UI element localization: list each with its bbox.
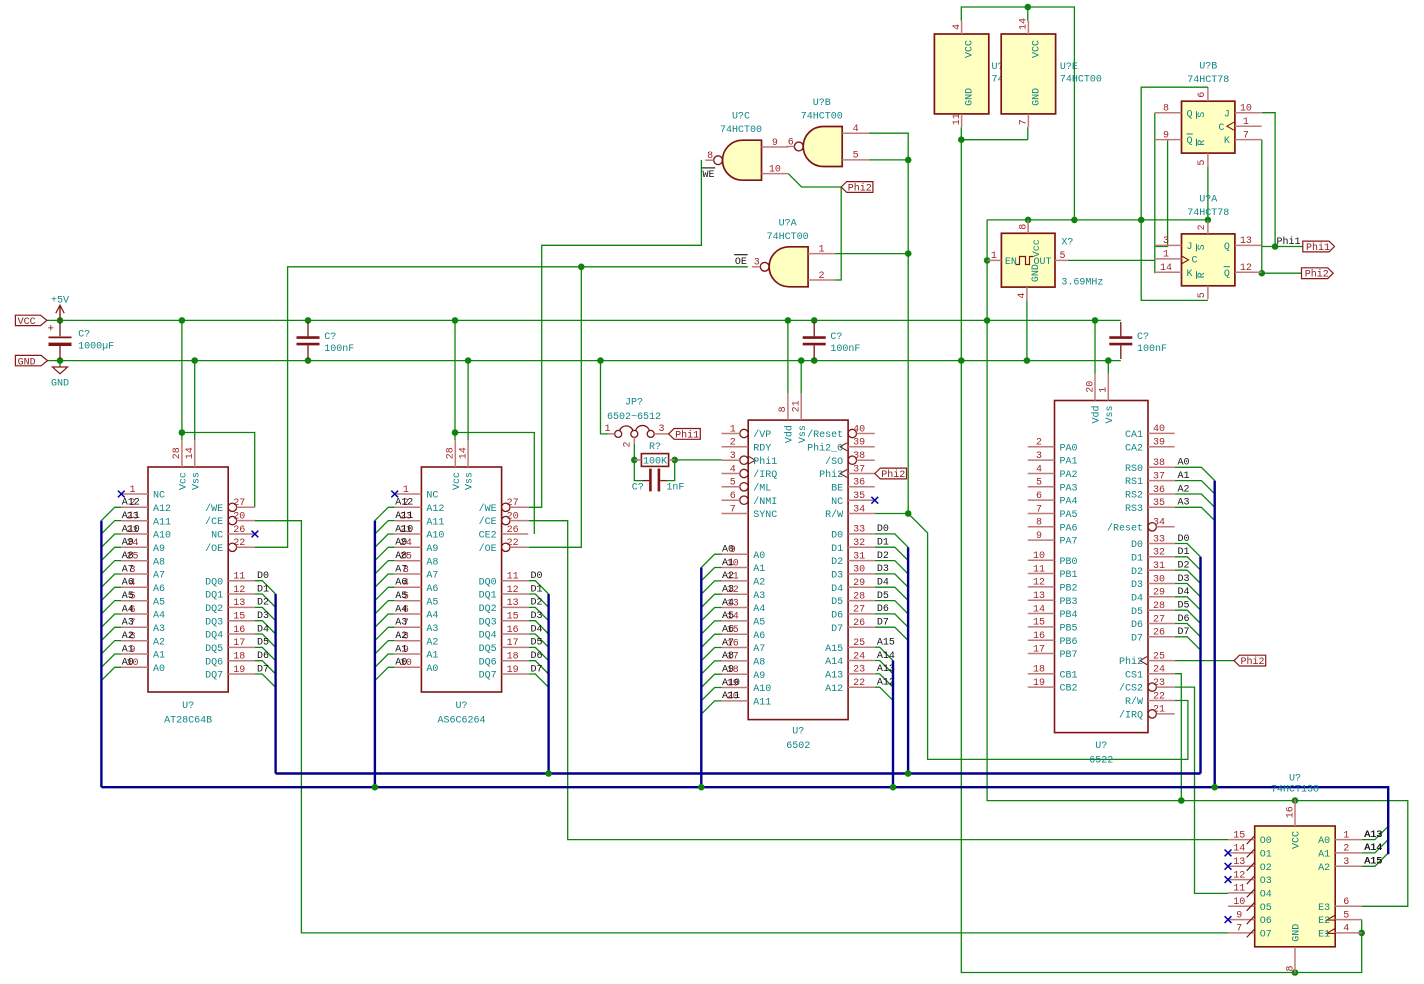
svg-text:1: 1	[129, 485, 135, 496]
svg-text:/ML: /ML	[753, 482, 771, 494]
svg-text:D2: D2	[877, 551, 889, 562]
svg-text:Vss: Vss	[191, 472, 202, 490]
svg-text:PA2: PA2	[1060, 470, 1078, 481]
svg-text:74HCT00: 74HCT00	[801, 112, 843, 123]
svg-text:16: 16	[507, 625, 519, 636]
svg-text:1: 1	[403, 485, 409, 496]
svg-text:DQ4: DQ4	[479, 631, 497, 642]
svg-text:A11: A11	[395, 511, 413, 522]
svg-text:35: 35	[853, 491, 865, 502]
svg-text:4: 4	[1017, 293, 1028, 299]
svg-text:/IRQ: /IRQ	[1119, 710, 1143, 722]
svg-text:C?: C?	[78, 329, 90, 340]
svg-text:16: 16	[1033, 631, 1045, 642]
svg-text:Q: Q	[1187, 136, 1193, 147]
svg-text:A3: A3	[122, 618, 134, 629]
svg-text:RS2: RS2	[1125, 491, 1143, 502]
svg-text:28: 28	[446, 447, 457, 459]
svg-text:A2: A2	[1178, 484, 1190, 495]
svg-text:D3: D3	[1178, 574, 1190, 585]
svg-text:S: S	[1197, 112, 1208, 118]
svg-text:D0: D0	[257, 571, 269, 582]
svg-text:A10: A10	[153, 531, 171, 542]
svg-text:A7: A7	[122, 564, 134, 575]
svg-text:RS1: RS1	[1125, 477, 1143, 488]
svg-text:A3: A3	[153, 624, 165, 635]
svg-text:17: 17	[507, 638, 519, 649]
svg-text:4: 4	[1343, 924, 1349, 935]
svg-text:A4: A4	[722, 598, 734, 609]
svg-text:D6: D6	[1178, 614, 1190, 625]
svg-text:Vcc: Vcc	[452, 472, 463, 490]
svg-text:D3: D3	[1131, 580, 1143, 591]
svg-text:74HCT00: 74HCT00	[720, 125, 762, 136]
svg-text:Vss: Vss	[465, 472, 476, 490]
svg-text:/CS2: /CS2	[1119, 683, 1143, 695]
svg-text:A3: A3	[426, 624, 438, 635]
svg-text:A7: A7	[753, 644, 765, 655]
svg-text:23: 23	[1153, 678, 1165, 689]
svg-text:O4: O4	[1260, 890, 1272, 901]
svg-text:A0: A0	[1178, 458, 1190, 469]
svg-text:DQ4: DQ4	[205, 631, 223, 642]
svg-text:1000µF: 1000µF	[78, 342, 114, 353]
svg-text:10: 10	[1033, 551, 1045, 562]
svg-text:15: 15	[1233, 830, 1245, 841]
svg-text:74HCT00: 74HCT00	[767, 232, 809, 243]
svg-text:D5: D5	[531, 638, 543, 649]
svg-text:/Reset: /Reset	[807, 429, 843, 441]
svg-text:E1: E1	[1318, 930, 1330, 941]
svg-text:A1: A1	[753, 564, 765, 575]
svg-text:A5: A5	[722, 611, 734, 622]
svg-text:12: 12	[507, 585, 519, 596]
svg-text:15: 15	[233, 612, 245, 623]
svg-text:Vss: Vss	[1105, 405, 1116, 423]
svg-text:6: 6	[1036, 491, 1042, 502]
svg-text:RS3: RS3	[1125, 504, 1143, 515]
svg-text:D5: D5	[1131, 607, 1143, 618]
svg-text:A3: A3	[395, 618, 407, 629]
svg-text:Vcc: Vcc	[1032, 239, 1043, 257]
svg-text:Vdd: Vdd	[784, 425, 796, 443]
svg-text:31: 31	[853, 551, 865, 562]
svg-text:8: 8	[1285, 965, 1296, 971]
svg-text:D5: D5	[257, 638, 269, 649]
svg-text:U?B: U?B	[813, 98, 831, 109]
svg-text:A10: A10	[753, 684, 771, 695]
svg-text:26: 26	[1153, 628, 1165, 639]
svg-text:D6: D6	[877, 604, 889, 615]
svg-text:A2: A2	[426, 637, 438, 648]
svg-text:40: 40	[1153, 424, 1165, 435]
svg-text:18: 18	[1033, 665, 1045, 676]
svg-text:RDY: RDY	[753, 443, 771, 454]
svg-text:PB3: PB3	[1060, 597, 1078, 608]
svg-text:A14: A14	[1364, 843, 1382, 854]
svg-text:30: 30	[853, 565, 865, 576]
svg-text:22: 22	[507, 538, 519, 549]
svg-text:A9: A9	[426, 544, 438, 555]
svg-text:3: 3	[1343, 857, 1349, 868]
svg-text:20: 20	[233, 511, 245, 522]
svg-text:O7: O7	[1260, 930, 1272, 941]
svg-text:/SO: /SO	[825, 456, 843, 468]
svg-text:38: 38	[853, 451, 865, 462]
svg-text:6502: 6502	[786, 741, 810, 752]
svg-text:PA4: PA4	[1060, 497, 1078, 508]
svg-text:DQ2: DQ2	[479, 604, 497, 615]
svg-text:9: 9	[1236, 910, 1242, 921]
svg-text:A11: A11	[153, 517, 171, 528]
svg-text:Q: Q	[1187, 109, 1193, 120]
svg-text:PA0: PA0	[1060, 443, 1078, 454]
svg-text:Phi2: Phi2	[1305, 269, 1329, 281]
svg-text:6: 6	[788, 137, 794, 148]
svg-text:1: 1	[818, 244, 824, 255]
svg-text:/Reset: /Reset	[1107, 522, 1143, 534]
svg-text:OE: OE	[735, 257, 747, 268]
svg-text:40: 40	[853, 424, 865, 435]
svg-text:WE: WE	[703, 170, 715, 181]
svg-text:U?C: U?C	[732, 112, 750, 123]
svg-text:A2: A2	[722, 571, 734, 582]
svg-text:GND: GND	[1031, 264, 1042, 282]
svg-text:PB5: PB5	[1060, 624, 1078, 635]
svg-text:21: 21	[792, 400, 803, 412]
svg-text:6522: 6522	[1089, 756, 1113, 767]
svg-text:37: 37	[1153, 471, 1165, 482]
svg-text:C?: C?	[1137, 332, 1149, 343]
svg-text:7: 7	[1036, 504, 1042, 515]
svg-text:Q: Q	[1224, 242, 1230, 253]
svg-text:/NMI: /NMI	[753, 496, 777, 508]
svg-text:A12: A12	[825, 684, 843, 695]
svg-text:3: 3	[730, 451, 736, 462]
svg-text:A9: A9	[753, 671, 765, 682]
svg-text:CB2: CB2	[1060, 684, 1078, 695]
svg-text:AS6C6264: AS6C6264	[437, 716, 485, 727]
svg-text:A13: A13	[825, 671, 843, 682]
svg-text:U?E: U?E	[1060, 62, 1078, 73]
svg-text:1: 1	[604, 424, 610, 435]
svg-text:A3: A3	[722, 585, 734, 596]
svg-text:Phi1: Phi1	[1277, 236, 1301, 248]
svg-text:DQ2: DQ2	[205, 604, 223, 615]
svg-text:U?: U?	[182, 701, 194, 712]
svg-text:D2: D2	[1131, 567, 1143, 578]
svg-text:O2: O2	[1260, 863, 1272, 874]
svg-text:5: 5	[1343, 910, 1349, 921]
svg-text:D3: D3	[531, 611, 543, 622]
svg-text:A12: A12	[395, 498, 413, 509]
svg-text:D6: D6	[257, 651, 269, 662]
svg-text:8: 8	[778, 406, 789, 412]
svg-text:A3: A3	[753, 591, 765, 602]
svg-text:27: 27	[233, 498, 245, 509]
svg-text:D6: D6	[1131, 620, 1143, 631]
svg-text:R: R	[1197, 272, 1208, 278]
svg-text:A1: A1	[722, 558, 734, 569]
svg-text:D4: D4	[257, 624, 269, 635]
svg-text:PA1: PA1	[1060, 457, 1078, 468]
svg-text:A7: A7	[426, 571, 438, 582]
svg-text:Phi2: Phi2	[881, 469, 905, 481]
svg-text:J: J	[1224, 109, 1230, 120]
svg-text:9: 9	[1036, 531, 1042, 542]
svg-text:1: 1	[1099, 387, 1110, 393]
svg-text:/WE: /WE	[205, 503, 223, 515]
svg-text:DQ1: DQ1	[479, 591, 497, 602]
svg-text:27: 27	[507, 498, 519, 509]
svg-text:11: 11	[507, 572, 519, 583]
svg-text:D2: D2	[531, 598, 543, 609]
svg-text:D7: D7	[831, 624, 843, 635]
svg-text:100nF: 100nF	[830, 344, 860, 355]
svg-text:13: 13	[1240, 236, 1252, 247]
svg-text:D0: D0	[1131, 540, 1143, 551]
svg-text:D4: D4	[531, 624, 543, 635]
svg-text:U?B: U?B	[1199, 62, 1217, 73]
svg-text:37: 37	[853, 464, 865, 475]
svg-text:100nF: 100nF	[1137, 344, 1167, 355]
svg-text:Phi2: Phi2	[1119, 656, 1143, 668]
svg-text:BE: BE	[831, 483, 843, 494]
svg-text:A10: A10	[722, 678, 740, 689]
svg-text:D4: D4	[1178, 587, 1190, 598]
svg-text:DQ6: DQ6	[205, 657, 223, 668]
svg-text:10: 10	[769, 164, 781, 175]
svg-text:15: 15	[1033, 618, 1045, 629]
svg-text:11: 11	[233, 572, 245, 583]
svg-text:D3: D3	[831, 571, 843, 582]
svg-text:D1: D1	[877, 538, 889, 549]
svg-text:17: 17	[1033, 644, 1045, 655]
svg-text:36: 36	[1153, 485, 1165, 496]
svg-text:100K: 100K	[643, 456, 667, 467]
svg-text:DQ0: DQ0	[479, 577, 497, 588]
svg-text:A8: A8	[153, 557, 165, 568]
svg-text:19: 19	[233, 665, 245, 676]
svg-text:28: 28	[1153, 601, 1165, 612]
svg-text:74HCT78: 74HCT78	[1187, 208, 1229, 219]
svg-text:1: 1	[1343, 830, 1349, 841]
svg-text:E3: E3	[1318, 903, 1330, 914]
svg-text:A2: A2	[122, 631, 134, 642]
svg-text:A6: A6	[426, 584, 438, 595]
svg-text:D7: D7	[531, 664, 543, 675]
svg-text:100nF: 100nF	[324, 344, 354, 355]
svg-text:NC: NC	[153, 491, 165, 502]
svg-text:A7: A7	[153, 571, 165, 582]
svg-text:O5: O5	[1260, 903, 1272, 914]
svg-text:C: C	[1192, 256, 1198, 267]
svg-text:18: 18	[507, 652, 519, 663]
svg-text:34: 34	[1153, 518, 1165, 529]
svg-text:D0: D0	[531, 571, 543, 582]
svg-text:27: 27	[1153, 614, 1165, 625]
svg-text:12: 12	[1240, 263, 1252, 274]
svg-text:A9: A9	[395, 538, 407, 549]
svg-text:74HCT138: 74HCT138	[1271, 785, 1319, 796]
svg-text:A12: A12	[153, 504, 171, 515]
svg-text:5: 5	[1036, 478, 1042, 489]
svg-text:Phi2: Phi2	[1241, 656, 1265, 668]
svg-text:5: 5	[853, 151, 859, 162]
svg-text:26: 26	[233, 525, 245, 536]
svg-text:A6: A6	[753, 631, 765, 642]
svg-text:R: R	[1197, 140, 1208, 146]
svg-text:U?: U?	[1095, 741, 1107, 752]
svg-text:3.69MHz: 3.69MHz	[1061, 278, 1103, 289]
svg-text:VCC: VCC	[1031, 40, 1042, 58]
svg-text:29: 29	[1153, 588, 1165, 599]
svg-text:A2: A2	[1318, 863, 1330, 874]
svg-text:A0: A0	[153, 664, 165, 675]
svg-text:1nF: 1nF	[666, 482, 684, 493]
svg-text:20: 20	[1085, 381, 1096, 393]
svg-text:1: 1	[991, 251, 997, 262]
svg-text:D5: D5	[1178, 601, 1190, 612]
svg-text:10: 10	[1240, 104, 1252, 115]
svg-text:27: 27	[853, 605, 865, 616]
svg-text:A15: A15	[825, 644, 843, 655]
svg-text:12: 12	[1033, 578, 1045, 589]
svg-text:29: 29	[853, 578, 865, 589]
svg-text:17: 17	[233, 638, 245, 649]
svg-text:28: 28	[172, 447, 183, 459]
svg-text:D2: D2	[257, 598, 269, 609]
svg-text:A4: A4	[426, 611, 438, 622]
svg-text:R/W: R/W	[825, 509, 843, 521]
svg-text:D4: D4	[1131, 593, 1143, 604]
svg-text:DQ3: DQ3	[205, 617, 223, 628]
svg-text:5: 5	[1060, 251, 1066, 262]
svg-text:DQ3: DQ3	[479, 617, 497, 628]
svg-text:1: 1	[730, 424, 736, 435]
svg-text:38: 38	[1153, 458, 1165, 469]
svg-text:A8: A8	[753, 658, 765, 669]
svg-text:2: 2	[1036, 438, 1042, 449]
svg-text:A11: A11	[122, 511, 140, 522]
svg-text:3: 3	[1163, 236, 1169, 247]
svg-text:A0: A0	[426, 664, 438, 675]
svg-text:O3: O3	[1260, 876, 1272, 887]
svg-text:33: 33	[853, 525, 865, 536]
svg-text:A10: A10	[122, 524, 140, 535]
svg-text:A5: A5	[753, 618, 765, 629]
svg-text:13: 13	[1233, 857, 1245, 868]
svg-text:A6: A6	[122, 578, 134, 589]
svg-text:24: 24	[1153, 665, 1165, 676]
svg-text:A5: A5	[395, 591, 407, 602]
svg-text:PB0: PB0	[1060, 557, 1078, 568]
svg-text:5: 5	[1197, 160, 1208, 166]
svg-text:12: 12	[1233, 870, 1245, 881]
svg-text:15: 15	[507, 612, 519, 623]
svg-text:14: 14	[1033, 604, 1045, 615]
svg-text:3: 3	[1036, 451, 1042, 462]
svg-text:8: 8	[1018, 224, 1029, 230]
svg-text:7: 7	[730, 504, 736, 515]
svg-text:A2: A2	[753, 578, 765, 589]
svg-text:A1: A1	[426, 651, 438, 662]
svg-text:36: 36	[853, 478, 865, 489]
svg-text:7: 7	[1019, 119, 1030, 125]
svg-text:D7: D7	[257, 664, 269, 675]
svg-text:R?: R?	[649, 442, 661, 453]
svg-text:6: 6	[1197, 92, 1208, 98]
svg-text:Phi2: Phi2	[848, 183, 872, 195]
svg-text:22: 22	[1153, 691, 1165, 702]
svg-text:D6: D6	[531, 651, 543, 662]
svg-text:20: 20	[507, 511, 519, 522]
svg-text:A4: A4	[753, 604, 765, 615]
svg-text:74HCT00: 74HCT00	[1060, 74, 1102, 85]
svg-text:A8: A8	[122, 551, 134, 562]
svg-text:D1: D1	[1178, 547, 1190, 558]
svg-text:13: 13	[1033, 591, 1045, 602]
svg-text:14: 14	[1019, 18, 1030, 30]
svg-text:4: 4	[1036, 464, 1042, 475]
svg-text:10: 10	[1233, 897, 1245, 908]
svg-text:A9: A9	[722, 665, 734, 676]
svg-text:12: 12	[233, 585, 245, 596]
svg-text:O0: O0	[1260, 836, 1272, 847]
svg-text:A0: A0	[395, 658, 407, 669]
svg-text:Vdd: Vdd	[1091, 405, 1103, 423]
svg-text:D0: D0	[831, 531, 843, 542]
svg-text:14: 14	[458, 447, 469, 459]
svg-text:D5: D5	[877, 591, 889, 602]
svg-text:DQ6: DQ6	[479, 657, 497, 668]
svg-text:D7: D7	[877, 618, 889, 629]
svg-text:A6: A6	[722, 625, 734, 636]
svg-text:CS1: CS1	[1125, 670, 1143, 681]
svg-text:K: K	[1224, 136, 1230, 147]
svg-text:AT28C64B: AT28C64B	[164, 716, 212, 727]
svg-text:D0: D0	[877, 524, 889, 535]
svg-text:D6: D6	[831, 611, 843, 622]
svg-text:1: 1	[1243, 117, 1249, 128]
svg-text:A0: A0	[722, 545, 734, 556]
svg-text:SYNC: SYNC	[753, 510, 777, 521]
svg-text:3: 3	[659, 424, 665, 435]
svg-text:26: 26	[853, 618, 865, 629]
svg-text:R/W: R/W	[1125, 696, 1143, 708]
svg-text:A14: A14	[825, 657, 843, 668]
svg-text:A14: A14	[877, 651, 895, 662]
svg-text:2: 2	[1197, 224, 1208, 230]
svg-text:+: +	[47, 323, 54, 335]
svg-text:28: 28	[853, 591, 865, 602]
svg-text:8: 8	[1163, 104, 1169, 115]
svg-text:A0: A0	[1318, 836, 1330, 847]
svg-text:A6: A6	[153, 584, 165, 595]
svg-text:9: 9	[772, 138, 778, 149]
svg-text:DQ5: DQ5	[479, 644, 497, 655]
svg-text:23: 23	[853, 665, 865, 676]
svg-text:A7: A7	[395, 564, 407, 575]
svg-text:C?: C?	[830, 332, 842, 343]
svg-text:18: 18	[233, 652, 245, 663]
svg-text:11: 11	[1233, 884, 1245, 895]
svg-text:PB4: PB4	[1060, 610, 1078, 621]
svg-text:5: 5	[730, 478, 736, 489]
svg-text:A5: A5	[426, 597, 438, 608]
svg-text:13: 13	[233, 598, 245, 609]
svg-text:D1: D1	[531, 584, 543, 595]
